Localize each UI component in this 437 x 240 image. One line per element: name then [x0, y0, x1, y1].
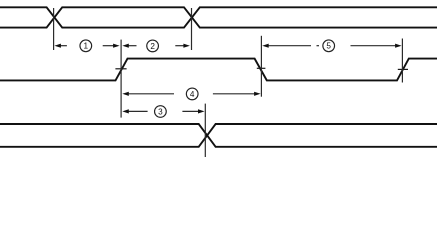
- svg-text:3: 3: [158, 107, 163, 116]
- signal: middle single-ended waveform: [0, 59, 437, 81]
- svg-text:4: 4: [190, 90, 195, 99]
- callout circle 2: [147, 40, 159, 52]
- callout circle 1: [80, 40, 92, 52]
- threshold tick on middle-signal rising edge 1: [115, 68, 126, 70]
- extension line at middle falling edge: [260, 36, 262, 97]
- extension line at first top crossover: [53, 8, 55, 50]
- signal: bottom differential pair, rail B (starts low): [0, 124, 437, 147]
- signal: top differential pair, rail A (starts high): [0, 7, 437, 27]
- dimension 5 right arrow: [351, 44, 402, 48]
- callout circle 4: [186, 88, 198, 100]
- dimension 1 right arrow: [103, 44, 120, 48]
- dimension 2 right arrow: [175, 44, 190, 48]
- callout circle 3: [155, 106, 167, 118]
- dimension 5 left arrow: [262, 44, 319, 48]
- extension line at second top crossover: [191, 8, 193, 50]
- dimension 4 left arrow: [122, 92, 174, 96]
- callout circle 5: [323, 40, 335, 52]
- svg-text:5: 5: [326, 42, 331, 51]
- threshold tick on middle-signal rising edge 2: [398, 68, 408, 70]
- dimension 2 left arrow: [122, 44, 136, 48]
- signal: top differential pair, rail B (starts low): [0, 7, 437, 27]
- svg-text:1: 1: [84, 42, 89, 51]
- extension line at middle second rising edge: [401, 39, 403, 83]
- dimension 3 left arrow: [122, 109, 147, 113]
- extension line at bottom crossover: [204, 104, 206, 157]
- dimension 1 left arrow: [54, 44, 67, 48]
- signal: bottom differential pair, rail A (starts high): [0, 124, 437, 147]
- extension line at middle rising edge: [120, 40, 122, 118]
- svg-text:2: 2: [150, 42, 155, 51]
- dimension 3 right arrow: [182, 109, 204, 113]
- threshold tick on middle-signal falling edge: [257, 67, 266, 69]
- dimension 4 right arrow: [213, 92, 261, 96]
